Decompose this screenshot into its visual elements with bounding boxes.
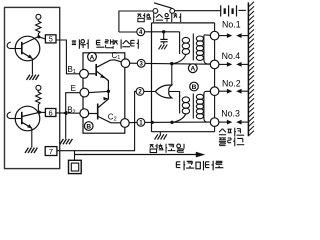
ground G5 xyxy=(155,134,167,139)
arrowhead on B2 wire xyxy=(62,111,67,116)
svg-text:No.2: No.2 xyxy=(222,78,241,88)
pin circle 3 xyxy=(137,59,145,67)
wire switch to battery xyxy=(175,10,221,12)
tachometer arrowhead xyxy=(196,152,205,158)
terminal box 6 xyxy=(45,109,56,117)
node circle E xyxy=(80,88,89,97)
node circle B1 xyxy=(80,69,89,78)
text 스파크 (spark) xyxy=(219,128,244,137)
spark plug node No.4 xyxy=(210,60,219,69)
ground G5 stub on coil box bottom xyxy=(159,132,161,135)
wire box5 to B1 xyxy=(56,40,80,74)
wire pin1 into coil box xyxy=(145,121,211,123)
svg-text:7: 7 xyxy=(49,147,53,156)
ground G1 xyxy=(27,75,39,80)
spark plug node No.1 xyxy=(210,31,219,40)
coil1 primary xyxy=(172,32,190,64)
text 파워 트랜지스터 (power transistor) xyxy=(72,39,139,48)
wire base Q1 xyxy=(10,48,22,50)
resistor R1 xyxy=(36,20,41,37)
junction dot Q1/R1/pin5 xyxy=(37,35,40,38)
battery xyxy=(221,5,237,16)
spark plug node No.3 xyxy=(210,118,219,127)
wire Q2 emitter down xyxy=(31,128,33,147)
wire box6 to B2 xyxy=(56,112,80,114)
svg-text:5: 5 xyxy=(49,35,53,44)
circled B in PT box xyxy=(84,122,93,131)
text 점화스위치 (ignition switch) xyxy=(137,13,180,22)
terminal box 7 xyxy=(45,147,57,156)
crescent arrow on pin2 wire xyxy=(155,85,171,98)
wire E node to junction xyxy=(89,91,109,92)
wire C1 to pin3 xyxy=(130,62,138,64)
circled A in PT box xyxy=(88,52,97,61)
pin circle 2 xyxy=(136,88,144,96)
svg-text:E: E xyxy=(71,84,76,93)
coil2 primary xyxy=(172,95,190,122)
wire base Q2 xyxy=(10,118,22,120)
terminal circle R2 top xyxy=(36,85,41,90)
input squiggle Q2 xyxy=(7,112,11,119)
wire pin2 right to crescent xyxy=(144,90,156,92)
node circle C2 xyxy=(121,119,130,128)
tachometer wire xyxy=(75,154,197,156)
wire frame to pin4 xyxy=(119,31,137,33)
svg-text:A: A xyxy=(190,66,195,73)
ground G2 xyxy=(25,148,37,153)
wire box7 upper to pin2 xyxy=(57,91,136,150)
resistor R2 xyxy=(36,90,41,111)
wire C2 to pin1 xyxy=(129,121,137,123)
svg-text:No.1: No.1 xyxy=(222,20,241,30)
wire Q1 emitter down xyxy=(31,59,33,75)
transistor Tr1 in PT box xyxy=(88,60,121,92)
wire pin2 left + down xyxy=(135,90,137,92)
ground G3 xyxy=(60,139,72,144)
power transistor box xyxy=(83,53,125,133)
wire crescent to coil2 primary xyxy=(169,92,180,98)
transistor Q2 xyxy=(15,106,40,131)
coil1 secondary xyxy=(196,35,210,64)
wire pin4 to coil1 xyxy=(144,31,179,33)
node circle B2 xyxy=(80,109,89,118)
wire battery to wall xyxy=(238,9,246,11)
ignition switch frame xyxy=(119,11,153,32)
ground G4 capacitor xyxy=(159,45,168,50)
svg-text:No.3: No.3 xyxy=(221,109,240,119)
coil1 core xyxy=(192,34,194,61)
coil2 core xyxy=(192,94,194,119)
input squiggle Q1 xyxy=(7,42,11,49)
junction dot E xyxy=(107,90,110,93)
wire pin3 to No.4 line xyxy=(145,62,211,65)
terminal box 5 xyxy=(45,35,56,43)
transistor Tr2 in PT box xyxy=(89,91,121,123)
junction dot Q2/R2/pin6 xyxy=(38,111,41,114)
wire to box6 xyxy=(39,111,45,113)
wire coil1 dot down to crescent xyxy=(171,64,173,85)
junction dot capacitor xyxy=(162,30,165,33)
node circle C1 xyxy=(121,59,130,68)
right column wire segments xyxy=(214,23,216,132)
svg-text:No.4: No.4 xyxy=(222,51,241,61)
ignition coil box xyxy=(152,23,215,132)
text 점화코일 (ignition coil) xyxy=(150,144,184,153)
capacitor xyxy=(160,32,167,44)
circled A in coil box xyxy=(188,64,197,73)
junction dot coil box left edge pin1 wire xyxy=(151,121,154,124)
wire box7 lower to connector xyxy=(74,151,76,161)
connector double square xyxy=(69,160,82,173)
spark plug node No.2 xyxy=(210,87,219,96)
pin circle 4 xyxy=(137,28,145,36)
svg-text:A: A xyxy=(90,54,95,61)
pin circle 1 xyxy=(137,118,145,126)
chassis wall xyxy=(247,2,249,136)
switch contact circles xyxy=(153,9,158,14)
wire E to ground xyxy=(66,93,80,139)
terminal circle R1 top xyxy=(36,14,41,19)
junction dot coil1 primary bottom xyxy=(170,62,173,65)
svg-text:6: 6 xyxy=(49,108,53,117)
circled B in coil box xyxy=(190,82,199,91)
text 타코미터로 (to tachometer) xyxy=(176,161,223,171)
junction dot coil2 primary bottom xyxy=(170,121,173,124)
switch lever xyxy=(154,3,172,8)
svg-text:B: B xyxy=(86,124,91,131)
text 플러그 (plug) xyxy=(219,137,244,146)
coil2 secondary xyxy=(196,91,210,122)
ECU outer box xyxy=(5,7,60,168)
wire to box5 xyxy=(39,37,46,39)
svg-text:B: B xyxy=(192,84,197,91)
transistor Q1 xyxy=(15,36,40,61)
